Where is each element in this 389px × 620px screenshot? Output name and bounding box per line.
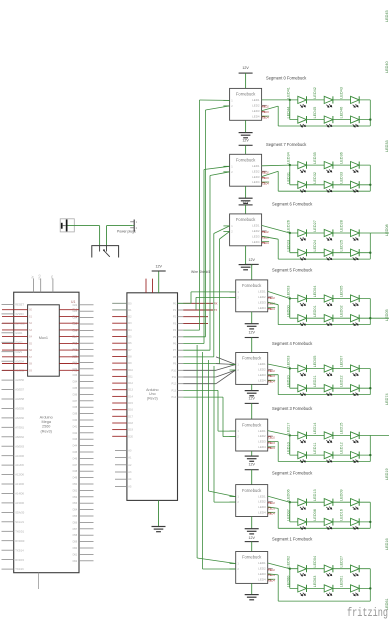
- svg-text:A5/D59: A5/D59: [15, 407, 24, 411]
- wire pin LED2 stub: [262, 170, 267, 172]
- svg-text:LED3: LED3: [252, 175, 260, 179]
- svg-text:LED19: LED19: [385, 468, 389, 480]
- svg-text:D34: D34: [73, 381, 78, 384]
- wire pin LED2 stub: [268, 296, 273, 298]
- LED LED35: [313, 152, 333, 172]
- wire stub to edge: [370, 434, 389, 436]
- wire row1: [290, 568, 371, 570]
- LED LED42: [313, 87, 333, 107]
- wire pin LED4 stub: [268, 379, 276, 381]
- svg-text:LED4: LED4: [258, 511, 266, 515]
- LED LED01: [313, 305, 333, 325]
- wire U7a: [208, 360, 235, 497]
- node right row2: [369, 184, 371, 186]
- wire red stub row2: [183, 316, 208, 318]
- wire pin LED3 diagonal: [268, 374, 279, 376]
- svg-text:Segment 1 Fornebuck: Segment 1 Fornebuck: [272, 537, 313, 542]
- LED LED62: [287, 556, 307, 576]
- wire left pin 1 stub: [230, 563, 236, 565]
- svg-text:A11/D6: A11/D6: [15, 463, 24, 467]
- wire IC to ground: [251, 312, 253, 324]
- wire IC to ground: [251, 384, 253, 390]
- svg-text:LED35: LED35: [313, 152, 317, 164]
- wire left pin 2 stub: [230, 436, 236, 438]
- svg-text:A13/D6: A13/D6: [15, 482, 24, 486]
- IC Fornebuck Segment 7: [230, 154, 262, 186]
- svg-text:LED23: LED23: [287, 240, 291, 252]
- wire switch pin1 drop: [99, 226, 101, 246]
- svg-text:LED40: LED40: [385, 61, 389, 73]
- svg-text:D48: D48: [73, 470, 78, 473]
- wire chain split vertical: [289, 569, 291, 589]
- node chain split: [289, 568, 291, 570]
- wire row1: [290, 368, 371, 370]
- wire U7b: [214, 366, 236, 502]
- svg-text:D53: D53: [73, 502, 78, 505]
- svg-text:LED07: LED07: [339, 356, 343, 368]
- svg-text:LED28: LED28: [339, 220, 343, 232]
- svg-text:D44: D44: [73, 445, 78, 448]
- wire stub to edge: [370, 232, 389, 234]
- LED LED07: [339, 356, 359, 376]
- svg-text:RESET: RESET: [15, 303, 24, 307]
- LED LED31: [287, 172, 307, 192]
- svg-text:12V: 12V: [248, 536, 255, 540]
- svg-text:LED3: LED3: [258, 373, 266, 377]
- wire switch pin2 drop: [106, 226, 108, 246]
- wire row2: [290, 119, 371, 121]
- svg-text:A4/D58: A4/D58: [15, 397, 24, 401]
- labels red pins: [268, 297, 276, 311]
- svg-text:LED4: LED4: [258, 378, 266, 382]
- LED LED22: [339, 375, 359, 395]
- wire 12V to IC: [251, 542, 253, 552]
- svg-text:LED22: LED22: [339, 375, 343, 387]
- svg-text:A15/D6: A15/D6: [15, 501, 24, 505]
- svg-text:Power plug1: Power plug1: [117, 229, 136, 233]
- svg-text:(Rev3): (Rev3): [147, 397, 158, 401]
- svg-text:LED04: LED04: [313, 286, 317, 298]
- svg-text:D60: D60: [73, 547, 78, 550]
- svg-text:PA2: PA2: [72, 322, 77, 325]
- wire IC to ground: [251, 451, 253, 456]
- wire row1: [290, 298, 371, 300]
- wire U1b: [183, 106, 229, 337]
- wire row2: [290, 184, 371, 186]
- svg-text:A2/D56: A2/D56: [15, 378, 24, 382]
- svg-text:PA1: PA1: [72, 315, 77, 318]
- wire red stub row3: [183, 322, 208, 324]
- Uno top pin red 1: [145, 279, 147, 293]
- svg-text:LED4: LED4: [258, 577, 266, 581]
- svg-text:SDA/20: SDA/20: [15, 511, 24, 515]
- wire left pin 2 stub: [223, 171, 229, 173]
- wire plug pin: [132, 225, 134, 227]
- LED LED41: [287, 87, 307, 107]
- svg-text:GND: GND: [39, 274, 42, 280]
- wire left pin 1 stub: [230, 291, 236, 293]
- svg-text:5V: 5V: [31, 275, 34, 278]
- svg-text:LED15: LED15: [339, 423, 343, 435]
- wire pin LED2 stub: [268, 567, 273, 569]
- node right row2: [369, 587, 371, 589]
- svg-text:Segment 5 Fornebuck: Segment 5 Fornebuck: [272, 267, 313, 272]
- svg-text:LED04: LED04: [313, 556, 317, 568]
- svg-text:D52: D52: [73, 496, 78, 499]
- LED LED05: [313, 356, 333, 376]
- wire 12V to IC: [245, 145, 247, 154]
- svg-text:Fornebuck: Fornebuck: [242, 356, 262, 361]
- svg-text:LED42: LED42: [313, 87, 317, 99]
- svg-text:TX3/14: TX3/14: [15, 548, 24, 552]
- IC Fornebuck Segment 0: [230, 88, 262, 120]
- svg-text:A6/D60: A6/D60: [15, 416, 24, 420]
- svg-text:LED2: LED2: [258, 567, 266, 571]
- svg-text:LED3: LED3: [252, 234, 260, 238]
- wire pin LED3 diagonal: [262, 171, 279, 176]
- svg-text:LED05: LED05: [385, 309, 389, 321]
- wire pin LED3 diagonal: [268, 302, 279, 305]
- wire U8a: [197, 345, 236, 564]
- svg-text:PA3: PA3: [72, 329, 77, 332]
- svg-text:D11: D11: [128, 375, 133, 378]
- wire IC to ground: [245, 186, 247, 198]
- LED LED00: [287, 305, 307, 325]
- svg-text:D42: D42: [73, 432, 78, 435]
- wire left pin 2 stub: [223, 105, 229, 107]
- LED LED61: [339, 576, 359, 596]
- wire right vertical: [369, 233, 371, 259]
- LED LED05: [339, 286, 359, 306]
- wire pin LED1 to chain: [262, 164, 290, 167]
- svg-text:LED3: LED3: [258, 572, 266, 576]
- svg-text:LED02: LED02: [339, 305, 343, 317]
- wire row1: [290, 164, 371, 166]
- svg-text:TX: TX: [214, 309, 218, 312]
- svg-text:LED1: LED1: [258, 561, 266, 565]
- svg-text:PA8: PA8: [72, 363, 77, 366]
- svg-text:LED25: LED25: [339, 240, 343, 252]
- wire U8b: [203, 352, 236, 569]
- svg-text:Uno: Uno: [149, 392, 156, 396]
- svg-text:LED03: LED03: [287, 356, 291, 368]
- node right row2: [369, 454, 371, 456]
- svg-text:PA5: PA5: [72, 342, 77, 345]
- svg-text:LED16: LED16: [339, 509, 343, 521]
- wire bottom return: [278, 190, 370, 192]
- wire pin LED3 diagonal: [268, 507, 279, 509]
- labels red pins: [262, 231, 270, 245]
- svg-text:A14/D6: A14/D6: [15, 492, 24, 496]
- wire 12V to IC: [245, 73, 247, 88]
- wire chain split vertical: [289, 100, 291, 120]
- wire right vertical: [369, 369, 371, 395]
- svg-text:D56: D56: [73, 521, 78, 524]
- LED LED20: [287, 375, 307, 395]
- wire bottom return: [278, 527, 370, 529]
- svg-text:LED62: LED62: [287, 556, 291, 568]
- labels red pins: [268, 370, 276, 384]
- svg-text:LED4: LED4: [258, 445, 266, 449]
- wire pin LED1 to chain: [268, 563, 290, 569]
- svg-text:P10: P10: [172, 369, 177, 372]
- svg-text:D16: D16: [128, 409, 133, 412]
- svg-text:A0/D54: A0/D54: [15, 359, 24, 363]
- svg-text:LED33: LED33: [339, 172, 343, 184]
- svg-text:12V: 12V: [248, 463, 255, 467]
- wire left return vertical: [277, 171, 279, 191]
- svg-text:D15: D15: [128, 402, 133, 405]
- wire pin LED4 stub: [262, 241, 270, 243]
- svg-text:LED13: LED13: [313, 489, 317, 501]
- svg-text:TX2/16: TX2/16: [15, 567, 24, 571]
- svg-text:LED09: LED09: [339, 489, 343, 501]
- svg-text:LED10: LED10: [287, 442, 291, 454]
- svg-text:Mux1: Mux1: [39, 336, 48, 340]
- wire funnel U5 pin2: [183, 370, 236, 384]
- Uno top pin 12V: [158, 271, 160, 293]
- wire chain split vertical: [289, 165, 291, 185]
- node right row2: [369, 317, 371, 319]
- node chain split: [289, 99, 291, 101]
- wire pin LED1 to chain: [268, 291, 290, 298]
- IC Fornebuck Segment 3: [236, 419, 268, 451]
- svg-text:D54: D54: [73, 509, 78, 512]
- ground Segment 7: [239, 197, 253, 199]
- svg-text:LED27: LED27: [339, 556, 343, 568]
- wire bottom return: [278, 461, 370, 463]
- wire left return vertical: [277, 305, 279, 325]
- svg-text:LED45: LED45: [313, 107, 317, 119]
- svg-text:RX: RX: [214, 302, 218, 305]
- Uno top pin red 2: [152, 279, 154, 293]
- LED LED04: [313, 556, 333, 576]
- svg-text:D55: D55: [73, 515, 78, 518]
- svg-text:P14: P14: [172, 396, 177, 399]
- svg-text:LED07: LED07: [287, 509, 291, 521]
- wire row1: [290, 501, 371, 503]
- svg-text:fritzing: fritzing: [347, 606, 388, 620]
- IC Fornebuck Segment 5: [236, 280, 268, 312]
- svg-text:LED2: LED2: [252, 169, 260, 173]
- wire left pin 2 stub: [230, 568, 236, 570]
- svg-text:LED36: LED36: [339, 152, 343, 164]
- wire 12V to IC: [251, 403, 253, 419]
- wire pin LED3 diagonal: [262, 106, 279, 111]
- svg-text:D10: D10: [128, 369, 133, 372]
- svg-text:LED1: LED1: [252, 98, 260, 102]
- labels red pins: [262, 172, 270, 186]
- wire IC to ground: [245, 246, 247, 265]
- LED LED28: [339, 220, 359, 240]
- wire pin LED4 stub: [262, 115, 270, 117]
- svg-text:12V: 12V: [242, 66, 249, 70]
- LED LED24: [313, 240, 333, 260]
- LED LED03: [287, 356, 307, 376]
- LED LED13: [313, 489, 333, 509]
- wire pin LED4 stub: [268, 446, 276, 448]
- LED LED09: [339, 489, 359, 509]
- node chain split: [289, 434, 291, 436]
- svg-text:TX0/D1: TX0/D1: [15, 529, 24, 533]
- wire left return vertical: [277, 575, 279, 601]
- wire U3b: [183, 231, 229, 363]
- ground Uno: [152, 526, 166, 528]
- LED LED32: [313, 172, 333, 192]
- wire pin LED4 stub: [262, 181, 270, 183]
- svg-text:P11: P11: [172, 376, 177, 379]
- svg-text:D14: D14: [128, 395, 133, 398]
- svg-text:12V: 12V: [242, 200, 249, 204]
- wire IC to ground: [251, 583, 253, 594]
- ground Segment 1: [245, 594, 259, 596]
- wire left pin 1 stub: [223, 99, 229, 101]
- Mega left pins: [2, 303, 25, 572]
- LED LED03: [287, 286, 307, 306]
- svg-text:Segment 6 Fornebuck: Segment 6 Fornebuck: [272, 202, 313, 207]
- svg-text:Fornebuck: Fornebuck: [242, 422, 262, 427]
- svg-text:12V: 12V: [248, 397, 255, 401]
- svg-text:Fornebuck: Fornebuck: [242, 555, 262, 560]
- wire left pin 2 stub: [223, 230, 229, 232]
- LED LED08: [313, 509, 333, 529]
- power jack J1: [60, 219, 74, 232]
- svg-text:Wire Shield1: Wire Shield1: [191, 270, 210, 274]
- svg-text:LED3: LED3: [258, 505, 266, 509]
- svg-text:LED2: LED2: [258, 500, 266, 504]
- wire switch pin2 to plug: [107, 225, 133, 227]
- wire pin LED2 stub: [268, 368, 273, 370]
- wire row1: [290, 232, 371, 234]
- ground Segment 3: [245, 455, 259, 457]
- svg-text:LED46: LED46: [339, 107, 343, 119]
- IC Wire Shield1 Arduino Uno: [127, 270, 210, 500]
- svg-text:LED05: LED05: [313, 356, 317, 368]
- svg-text:LED2: LED2: [252, 229, 260, 233]
- svg-text:SCL/21: SCL/21: [15, 520, 24, 524]
- svg-text:D45: D45: [73, 451, 78, 454]
- svg-text:LED1: LED1: [252, 224, 260, 228]
- svg-text:PA7: PA7: [72, 356, 77, 359]
- svg-text:D46: D46: [73, 457, 78, 460]
- node right row2: [369, 521, 371, 523]
- wire chain split vertical: [289, 369, 291, 389]
- svg-text:D57: D57: [73, 528, 78, 531]
- wire row1: [290, 434, 371, 436]
- wire red stub row0: [183, 302, 213, 304]
- svg-text:LED06: LED06: [287, 489, 291, 501]
- wire row2: [290, 587, 371, 589]
- LED LED45: [313, 107, 333, 127]
- node right row2: [369, 387, 371, 389]
- svg-text:PA4: PA4: [72, 336, 77, 339]
- node chain split: [289, 164, 291, 166]
- LED LED10: [287, 442, 307, 462]
- svg-text:LED14: LED14: [313, 423, 317, 435]
- svg-text:RX3/15: RX3/15: [15, 558, 24, 562]
- wire left pin 1 stub: [223, 165, 229, 167]
- labels red pins: [262, 106, 270, 120]
- svg-text:Fornebuck: Fornebuck: [236, 92, 256, 97]
- svg-text:LED01: LED01: [313, 305, 317, 317]
- Uno left pins red stubs: [112, 302, 133, 438]
- IC Fornebuck Segment 2: [236, 485, 268, 517]
- wire U1a: [183, 100, 229, 330]
- svg-text:D58: D58: [73, 534, 78, 537]
- svg-text:LED08: LED08: [385, 224, 389, 236]
- LED LED07: [287, 509, 307, 529]
- labels red pins: [268, 436, 276, 450]
- svg-text:LED4: LED4: [252, 240, 260, 244]
- wire U4b: [196, 297, 236, 310]
- LED LED17: [287, 423, 307, 443]
- LED LED11: [313, 443, 333, 463]
- svg-text:D38: D38: [73, 406, 78, 409]
- LED LED14: [313, 423, 333, 443]
- wire 12V to IC: [251, 470, 253, 485]
- svg-text:Arduino: Arduino: [146, 388, 158, 392]
- wire pin LED1 to chain: [268, 364, 290, 369]
- svg-text:LED11: LED11: [313, 443, 317, 454]
- svg-text:Segment 4 Fornebuck: Segment 4 Fornebuck: [272, 341, 313, 346]
- svg-text:D50: D50: [73, 483, 78, 486]
- svg-text:Fornebuck: Fornebuck: [236, 217, 256, 222]
- wire chain split vertical: [289, 233, 291, 253]
- svg-text:PA6: PA6: [72, 349, 77, 352]
- IC Mux1: [28, 305, 60, 376]
- svg-text:D39: D39: [73, 413, 78, 416]
- wire U6a: [183, 390, 236, 431]
- ground Segment 4: [245, 390, 259, 392]
- svg-text:LED3: LED3: [252, 109, 260, 113]
- svg-text:GND1: GND1: [15, 331, 23, 335]
- wire pin LED1 to chain: [262, 99, 290, 101]
- wire U3a: [183, 226, 229, 357]
- node right row2: [369, 118, 371, 120]
- svg-text:LED27: LED27: [313, 220, 317, 232]
- ground Segment 2: [245, 528, 259, 530]
- svg-text:LED2: LED2: [258, 295, 266, 299]
- wire funnel U5 pin1: [183, 357, 236, 370]
- LED LED21: [313, 375, 333, 395]
- LED LED23: [287, 240, 307, 260]
- svg-text:LED33: LED33: [385, 140, 389, 152]
- Mux1 pins and red wires: [2, 309, 79, 373]
- wire bottom return: [278, 324, 370, 326]
- svg-text:D19: D19: [128, 429, 133, 432]
- svg-text:LED4: LED4: [258, 306, 266, 310]
- wire row2: [290, 317, 371, 319]
- svg-text:LED1: LED1: [258, 290, 266, 294]
- wire U6b: [183, 397, 236, 437]
- wire left return vertical: [277, 106, 279, 126]
- svg-text:D37: D37: [73, 400, 78, 403]
- Mega right pins: [73, 304, 94, 563]
- svg-text:Segment 0 Fornebuck: Segment 0 Fornebuck: [266, 75, 307, 80]
- connector Power plug1: [117, 220, 138, 234]
- wire row1: [290, 99, 371, 101]
- svg-text:Fornebuck: Fornebuck: [236, 158, 256, 163]
- svg-text:D47: D47: [73, 464, 78, 467]
- wire left return vertical: [277, 375, 279, 395]
- svg-text:LED44: LED44: [287, 107, 291, 119]
- svg-text:LED3: LED3: [258, 300, 266, 304]
- LED LED43: [339, 87, 359, 107]
- wire pin LED1 to chain: [268, 496, 290, 502]
- wire U2b: [183, 172, 229, 350]
- svg-text:A7/D61: A7/D61: [15, 425, 24, 429]
- svg-text:LED41: LED41: [287, 87, 291, 99]
